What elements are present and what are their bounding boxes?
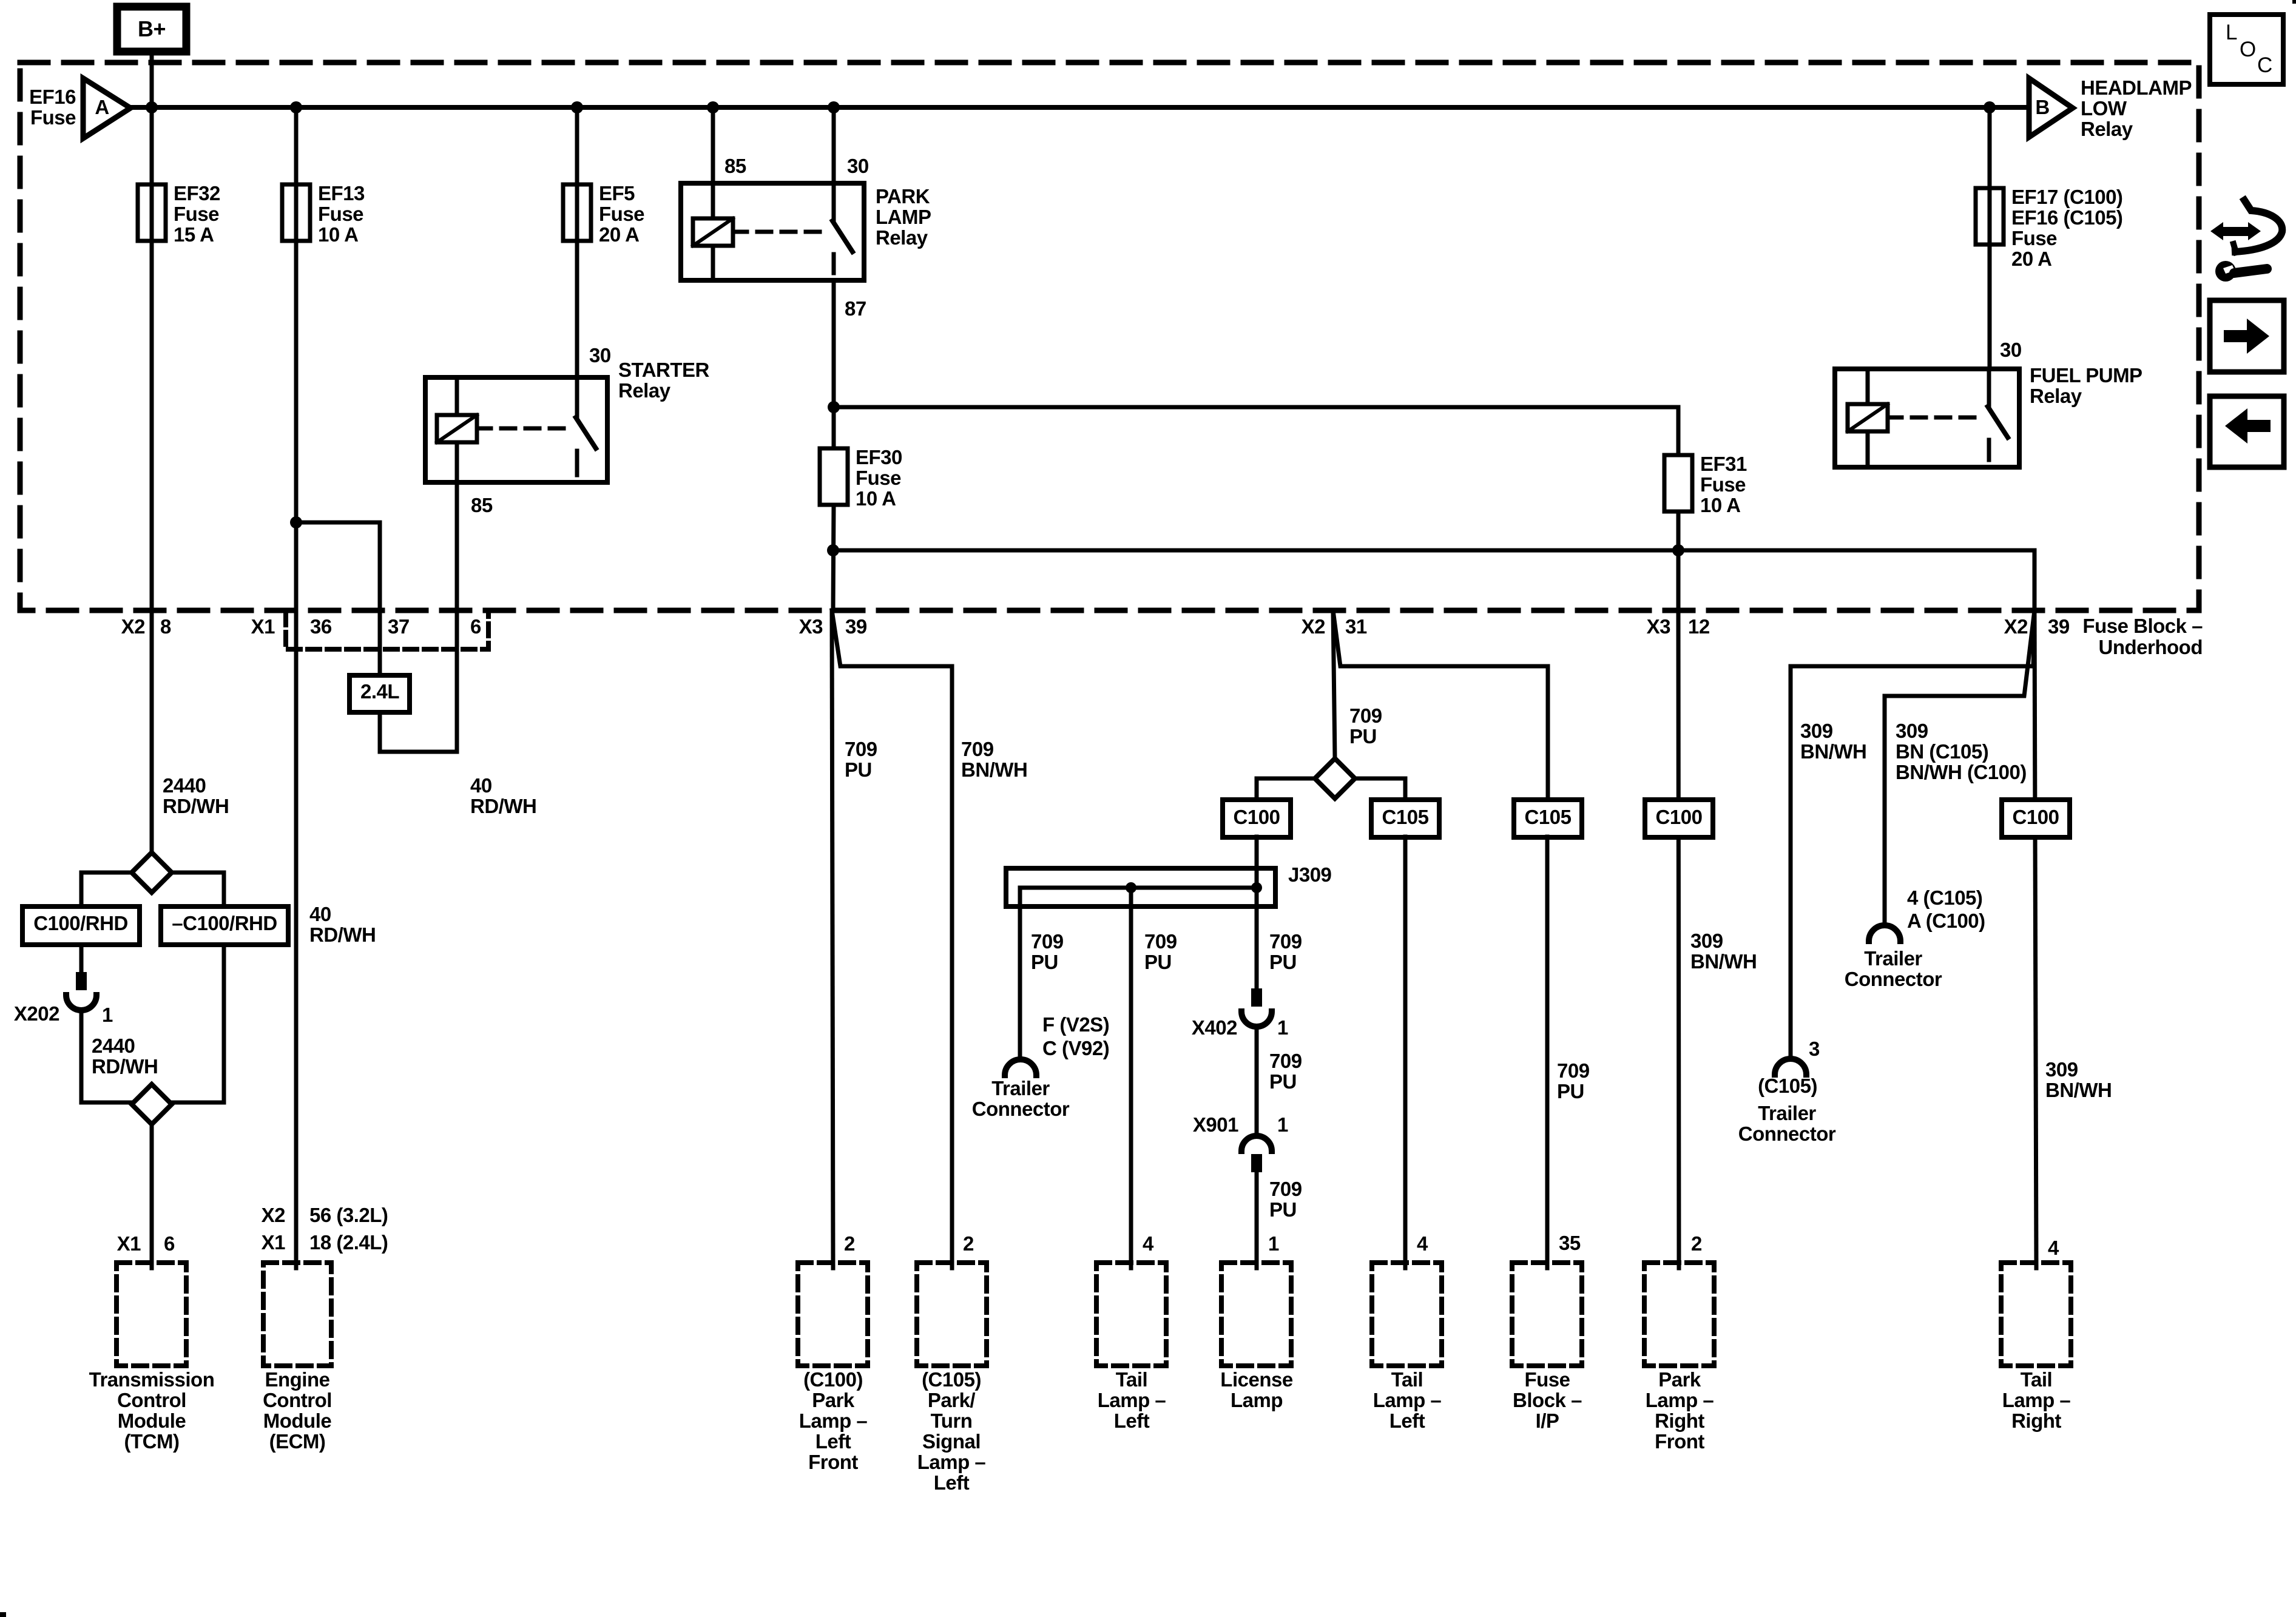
svg-text:1: 1 xyxy=(1277,1016,1288,1039)
trailer connector arc 4/A xyxy=(1869,925,1900,941)
junction node B+ / EF32 xyxy=(146,101,158,113)
svg-text:C105: C105 xyxy=(1525,806,1572,828)
wire park lamp relay pin 30 xyxy=(832,107,836,183)
svg-text:A (C100): A (C100) xyxy=(1907,910,1985,932)
svg-text:Front: Front xyxy=(1655,1430,1704,1453)
connector C105 fuse block IP xyxy=(1514,800,1582,837)
box fuse block IP xyxy=(1512,1263,1582,1366)
svg-text:10 A: 10 A xyxy=(856,487,896,510)
junction node J309 right xyxy=(1251,882,1262,893)
svg-text:309: 309 xyxy=(1800,720,1833,742)
svg-text:Lamp –: Lamp – xyxy=(2002,1389,2071,1411)
svg-text:BN/WH: BN/WH xyxy=(961,758,1027,781)
power feed B+ terminal xyxy=(117,7,186,52)
svg-text:Transmission: Transmission xyxy=(89,1368,215,1391)
svg-text:Relay: Relay xyxy=(618,379,671,402)
svg-text:39: 39 xyxy=(845,615,867,638)
svg-text:Signal: Signal xyxy=(922,1430,981,1453)
svg-text:Connector: Connector xyxy=(1738,1122,1836,1145)
svg-text:6: 6 xyxy=(164,1232,175,1255)
svg-text:309: 309 xyxy=(1896,720,1928,742)
lamp box park lamp right front xyxy=(1644,1263,1714,1366)
svg-text:85: 85 xyxy=(724,155,746,177)
fuse EF13 10 A xyxy=(282,184,310,241)
svg-text:EF16 (C105): EF16 (C105) xyxy=(2011,206,2122,229)
wire C105 to fuse block IP xyxy=(1545,837,1550,1268)
relay PARK LAMP xyxy=(681,183,864,280)
lamp box park lamp left front xyxy=(798,1263,868,1366)
svg-text:PU: PU xyxy=(1349,725,1377,748)
svg-text:PU: PU xyxy=(1269,1198,1297,1221)
trailer connector arc 3 (C105) xyxy=(1775,1059,1806,1075)
svg-text:Block –: Block – xyxy=(1513,1389,1582,1411)
svg-text:(TCM): (TCM) xyxy=(124,1430,180,1453)
svg-text:Connector: Connector xyxy=(972,1098,1070,1120)
svg-text:PU: PU xyxy=(1144,951,1172,973)
svg-text:2: 2 xyxy=(1691,1232,1702,1255)
wire 2.4L option to starter relay 85 via pin 6 xyxy=(380,482,457,752)
J309 internal bus wire xyxy=(1020,886,1257,890)
svg-text:Front: Front xyxy=(808,1451,858,1473)
svg-text:2.4L: 2.4L xyxy=(360,680,399,703)
wire EF32 branch down to TCM splice xyxy=(150,107,154,853)
svg-text:C100: C100 xyxy=(1656,806,1703,828)
X1 connector dashed sub-box xyxy=(286,613,488,649)
lamp box park/turn signal lamp left xyxy=(917,1263,987,1366)
svg-text:Lamp –: Lamp – xyxy=(799,1409,868,1432)
svg-text:I/P: I/P xyxy=(1536,1409,1559,1432)
svg-text:2: 2 xyxy=(844,1232,855,1255)
wire EF13 branch down to ECM xyxy=(294,107,299,1268)
wire X2 39 to trailer connector 4/A xyxy=(1885,610,2034,926)
svg-text:LOW: LOW xyxy=(2081,97,2127,120)
svg-text:C: C xyxy=(2257,53,2272,77)
svg-text:Left: Left xyxy=(1114,1409,1150,1432)
triangle connector A EF16 Fuse xyxy=(83,78,130,138)
svg-text:PU: PU xyxy=(1269,951,1297,973)
page corner mark xyxy=(0,1612,6,1617)
svg-text:35: 35 xyxy=(1559,1232,1581,1254)
svg-text:X3: X3 xyxy=(1647,615,1671,638)
svg-text:B+: B+ xyxy=(138,16,166,41)
svg-text:Fuse: Fuse xyxy=(856,467,901,489)
svg-text:LAMP: LAMP xyxy=(876,206,931,228)
junction node park lamp relay 30 xyxy=(828,101,840,113)
svg-text:EF5: EF5 xyxy=(599,182,635,204)
svg-text:Engine: Engine xyxy=(265,1368,329,1391)
wire X2 31 to fuse block IP via C105 xyxy=(1333,610,1548,800)
svg-text:EF17 (C100): EF17 (C100) xyxy=(2011,186,2122,208)
svg-text:Control: Control xyxy=(117,1389,186,1411)
svg-text:–C100/RHD: –C100/RHD xyxy=(172,912,277,934)
page locator box L O C xyxy=(2210,15,2283,84)
svg-text:Fuse: Fuse xyxy=(318,203,363,225)
svg-text:Fuse: Fuse xyxy=(30,106,76,129)
svg-text:709: 709 xyxy=(961,738,994,760)
svg-text:Module: Module xyxy=(263,1409,332,1432)
svg-text:2440: 2440 xyxy=(163,774,206,797)
svg-text:2440: 2440 xyxy=(92,1035,135,1057)
inline connector X202 xyxy=(76,972,87,990)
svg-text:C100: C100 xyxy=(1234,806,1280,828)
svg-text:Trailer: Trailer xyxy=(1864,947,1922,970)
svg-text:L: L xyxy=(2226,21,2237,44)
svg-text:Right: Right xyxy=(1655,1409,1704,1432)
fuse EF17 (C100) EF16 (C105) 20 A xyxy=(1976,188,2004,245)
svg-text:RD/WH: RD/WH xyxy=(470,795,536,817)
svg-text:4: 4 xyxy=(2048,1237,2059,1259)
svg-text:EF13: EF13 xyxy=(318,182,365,204)
svg-text:309: 309 xyxy=(1690,930,1723,952)
svg-text:O: O xyxy=(2240,38,2256,61)
triangle connector B HEADLAMP LOW Relay xyxy=(2029,78,2073,137)
junction block J309 xyxy=(1006,868,1275,906)
wire C105 to tail lamp left rear xyxy=(1403,837,1408,1268)
svg-text:709: 709 xyxy=(1557,1059,1590,1082)
svg-text:12: 12 xyxy=(1688,615,1710,638)
relay FUEL PUMP xyxy=(1835,369,2019,467)
inline connector X402 xyxy=(1251,988,1262,1007)
svg-text:X3: X3 xyxy=(799,615,823,638)
svg-text:Park: Park xyxy=(1658,1368,1701,1391)
wire 87 feed to EF31 xyxy=(834,407,1678,455)
svg-text:Lamp –: Lamp – xyxy=(1646,1389,1714,1411)
svg-text:RD/WH: RD/WH xyxy=(92,1055,158,1078)
svg-text:Left: Left xyxy=(934,1471,970,1494)
wire J309 to connector X402 xyxy=(1255,888,1259,988)
svg-text:709: 709 xyxy=(1349,704,1382,727)
svg-text:X402: X402 xyxy=(1192,1016,1237,1039)
svg-text:56 (3.2L): 56 (3.2L) xyxy=(309,1204,388,1226)
svg-text:X901: X901 xyxy=(1193,1113,1238,1136)
junction node 87 feed xyxy=(828,401,840,413)
wire splice to -C100/RHD xyxy=(172,873,224,906)
svg-text:PARK: PARK xyxy=(876,185,930,208)
svg-text:Underhood: Underhood xyxy=(2099,636,2203,658)
svg-text:309: 309 xyxy=(2045,1058,2078,1081)
junction node EF13 xyxy=(290,101,302,113)
svg-text:Relay: Relay xyxy=(2081,118,2133,140)
svg-text:RD/WH: RD/WH xyxy=(309,923,376,946)
junction node EF17 fuse xyxy=(1984,101,1996,113)
wire 87 feed to EF30 xyxy=(832,407,836,448)
svg-text:Connector: Connector xyxy=(1845,968,1942,990)
svg-text:36: 36 xyxy=(310,615,332,638)
service information icon double arrow xyxy=(2210,222,2261,240)
connector C100 right front xyxy=(1645,800,1713,837)
wire park lamp relay 87 down xyxy=(832,280,836,407)
svg-text:10 A: 10 A xyxy=(318,223,358,246)
svg-text:BN/WH: BN/WH xyxy=(1690,950,1757,973)
junction node park lamp relay 85 xyxy=(707,101,719,113)
main feed bus wire xyxy=(130,105,2029,110)
svg-text:C (V92): C (V92) xyxy=(1042,1037,1109,1059)
splice diamond upper TCM branch xyxy=(132,852,172,893)
svg-text:EF16: EF16 xyxy=(29,86,76,108)
splice diamond lower TCM branch xyxy=(132,1084,172,1124)
svg-text:4: 4 xyxy=(1143,1232,1154,1255)
junction node EF31 splice xyxy=(1672,544,1684,556)
back arrow box xyxy=(2210,396,2284,467)
svg-text:30: 30 xyxy=(589,344,611,366)
svg-text:31: 31 xyxy=(1345,615,1367,638)
wire diamond to connector C100 xyxy=(1257,778,1315,800)
svg-text:18 (2.4L): 18 (2.4L) xyxy=(309,1231,388,1254)
trailer connector arc F/C xyxy=(1005,1059,1036,1075)
inline connector X901 xyxy=(1241,1136,1272,1151)
module TCM dashed box xyxy=(116,1263,186,1366)
svg-text:2: 2 xyxy=(963,1232,974,1255)
wire EF17 fuse branch xyxy=(1988,107,1992,369)
svg-text:Park/: Park/ xyxy=(928,1389,976,1411)
wire C100/RHD to connector X202 xyxy=(79,945,84,972)
fuse EF5 20 A xyxy=(575,107,579,377)
wire J309 to tail lamp left xyxy=(1129,888,1133,1268)
relay STARTER xyxy=(425,377,607,482)
svg-text:1: 1 xyxy=(1268,1232,1279,1255)
svg-text:709: 709 xyxy=(845,738,877,760)
svg-text:RD/WH: RD/WH xyxy=(163,795,229,817)
svg-text:BN (C105): BN (C105) xyxy=(1896,740,1988,763)
svg-text:Tail: Tail xyxy=(2021,1368,2052,1391)
svg-text:X2: X2 xyxy=(262,1204,286,1226)
svg-text:Trailer: Trailer xyxy=(1758,1102,1816,1124)
wire 709 PU to park lamp left front xyxy=(832,610,833,1268)
wire splice bus to exit X2 39 xyxy=(833,550,2034,610)
svg-text:C100/RHD: C100/RHD xyxy=(33,912,128,934)
svg-text:40: 40 xyxy=(470,774,492,797)
svg-text:EF31: EF31 xyxy=(1700,453,1747,475)
svg-text:1: 1 xyxy=(1277,1113,1288,1136)
svg-text:709: 709 xyxy=(1269,1178,1302,1200)
fuse EF32 15 A xyxy=(138,184,166,241)
wire X2 39 to tail lamp right xyxy=(2034,610,2036,1268)
connector C100 tail right xyxy=(2002,800,2070,837)
svg-text:A: A xyxy=(95,96,109,118)
svg-text:709: 709 xyxy=(1269,930,1302,953)
svg-text:40: 40 xyxy=(309,903,331,925)
wire J309 to trailer connector F/C xyxy=(1018,888,1022,1059)
wire park lamp relay pin 85 xyxy=(711,107,715,183)
svg-text:Relay: Relay xyxy=(2030,385,2082,407)
svg-text:Relay: Relay xyxy=(876,226,928,249)
svg-text:PU: PU xyxy=(1269,1070,1297,1093)
wire splice to C100/RHD xyxy=(81,873,132,906)
svg-text:39: 39 xyxy=(2048,615,2070,638)
svg-text:B: B xyxy=(2035,96,2049,118)
svg-text:C105: C105 xyxy=(1382,806,1429,828)
svg-text:EF30: EF30 xyxy=(856,446,902,468)
svg-text:J309: J309 xyxy=(1288,863,1332,886)
svg-text:1: 1 xyxy=(102,1004,113,1026)
svg-text:X2: X2 xyxy=(121,615,146,638)
svg-text:(C100): (C100) xyxy=(803,1368,863,1391)
svg-text:709: 709 xyxy=(1031,930,1064,953)
svg-text:Fuse: Fuse xyxy=(1700,473,1746,496)
forward arrow box xyxy=(2210,300,2284,372)
fuse block underhood dashed border xyxy=(20,62,2199,610)
lamp box tail lamp right xyxy=(2001,1263,2071,1366)
wire X2 31 to splice diamond xyxy=(1333,610,1335,758)
wire -C100/RHD to lower splice xyxy=(172,945,224,1102)
svg-text:30: 30 xyxy=(2000,339,2022,361)
wire X202 to lower splice xyxy=(81,1010,132,1102)
lamp box tail lamp left xyxy=(1096,1263,1166,1366)
wire X2 39 to trailer connector 3 xyxy=(1791,610,2034,1059)
svg-text:(ECM): (ECM) xyxy=(269,1430,326,1453)
splice diamond J309 feed xyxy=(1315,758,1355,798)
svg-text:STARTER: STARTER xyxy=(618,359,710,381)
svg-text:X1: X1 xyxy=(262,1231,286,1254)
svg-text:37: 37 xyxy=(388,615,410,638)
svg-text:(C105): (C105) xyxy=(1758,1075,1817,1097)
wire X901 to license lamp xyxy=(1255,1172,1259,1268)
svg-text:Module: Module xyxy=(118,1409,186,1432)
fuse EF30 10 A xyxy=(820,448,848,505)
svg-text:Park: Park xyxy=(812,1389,855,1411)
svg-text:X1: X1 xyxy=(251,615,275,638)
junction node J309 centre xyxy=(1126,882,1136,893)
svg-text:X2: X2 xyxy=(2004,615,2028,638)
engine option box 2.4L xyxy=(349,675,410,712)
svg-text:BN/WH: BN/WH xyxy=(1800,740,1866,763)
svg-text:8: 8 xyxy=(160,615,171,638)
svg-text:PU: PU xyxy=(845,758,872,781)
svg-text:20 A: 20 A xyxy=(599,223,639,246)
svg-text:Tail: Tail xyxy=(1116,1368,1147,1391)
svg-text:87: 87 xyxy=(845,297,866,320)
svg-text:Tail: Tail xyxy=(1391,1368,1423,1391)
svg-text:Turn: Turn xyxy=(931,1409,973,1432)
svg-text:BN/WH: BN/WH xyxy=(2045,1079,2112,1101)
svg-text:BN/WH (C100): BN/WH (C100) xyxy=(1896,761,2027,783)
svg-text:Control: Control xyxy=(263,1389,332,1411)
svg-text:4: 4 xyxy=(1417,1232,1428,1255)
svg-text:X2: X2 xyxy=(1302,615,1326,638)
page corner top right mark xyxy=(2292,0,2296,4)
svg-text:3: 3 xyxy=(1809,1038,1820,1060)
svg-text:Fuse: Fuse xyxy=(1524,1368,1570,1391)
service information icon curved arrow xyxy=(2235,200,2282,252)
svg-text:F (V2S): F (V2S) xyxy=(1042,1013,1109,1036)
svg-text:Right: Right xyxy=(2011,1409,2061,1432)
svg-text:License: License xyxy=(1220,1368,1293,1391)
svg-text:Left: Left xyxy=(815,1430,851,1453)
wire EF31 to exit X3 12 xyxy=(1676,511,1681,610)
svg-text:Fuse: Fuse xyxy=(2011,227,2057,249)
svg-text:Lamp: Lamp xyxy=(1231,1389,1283,1411)
svg-text:Lamp –: Lamp – xyxy=(917,1451,986,1473)
svg-text:X1: X1 xyxy=(117,1232,141,1255)
svg-text:PU: PU xyxy=(1557,1080,1584,1102)
svg-text:C100: C100 xyxy=(2013,806,2059,828)
wire EF13 to 2.4L option box via pin 37 xyxy=(296,522,380,675)
svg-text:EF32: EF32 xyxy=(174,182,220,204)
lamp box tail lamp left rear xyxy=(1372,1263,1442,1366)
svg-text:15 A: 15 A xyxy=(174,223,214,246)
svg-text:6: 6 xyxy=(470,615,481,638)
connector C100 left xyxy=(1223,800,1291,837)
svg-text:Lamp –: Lamp – xyxy=(1373,1389,1442,1411)
svg-text:Left: Left xyxy=(1389,1409,1425,1432)
wire 709 BN/WH to park/turn signal lamp xyxy=(832,610,952,1268)
svg-text:Lamp –: Lamp – xyxy=(1098,1389,1166,1411)
wire diamond to connector C105 xyxy=(1355,778,1405,800)
option box C100/RHD xyxy=(22,906,140,945)
lamp box license lamp xyxy=(1221,1263,1291,1366)
svg-text:PU: PU xyxy=(1031,951,1058,973)
svg-text:FUEL PUMP: FUEL PUMP xyxy=(2030,364,2142,387)
wire X402 to X901 xyxy=(1255,1027,1259,1135)
wire splice to TCM xyxy=(150,1124,154,1268)
svg-text:(C105): (C105) xyxy=(922,1368,981,1391)
option box -C100/RHD xyxy=(161,906,288,945)
svg-text:10 A: 10 A xyxy=(1700,494,1740,516)
service information icon wrench xyxy=(2215,261,2236,282)
svg-text:X202: X202 xyxy=(14,1002,59,1025)
svg-text:30: 30 xyxy=(847,155,869,177)
svg-text:4 (C105): 4 (C105) xyxy=(1907,886,1982,909)
wire C100 to junction block J309 xyxy=(1255,837,1259,888)
junction node EF5 xyxy=(571,101,583,113)
connector C105 left xyxy=(1371,800,1439,837)
junction node EF13 to 2.4L branch xyxy=(290,516,302,528)
svg-text:709: 709 xyxy=(1144,930,1177,953)
svg-text:Fuse Block –: Fuse Block – xyxy=(2082,615,2203,637)
junction node EF30 splice xyxy=(827,544,839,556)
svg-text:HEADLAMP: HEADLAMP xyxy=(2081,76,2192,99)
svg-text:709: 709 xyxy=(1269,1050,1302,1072)
svg-text:20 A: 20 A xyxy=(2011,248,2051,270)
fuse EF31 10 A xyxy=(1664,455,1692,511)
svg-text:Fuse: Fuse xyxy=(174,203,219,225)
svg-text:85: 85 xyxy=(471,494,493,516)
svg-text:Fuse: Fuse xyxy=(599,203,644,225)
wire B+ to bus xyxy=(150,52,154,107)
wire X3 12 to park lamp right front xyxy=(1678,610,1679,1268)
wire EF30 to exit X3 39 xyxy=(833,505,834,610)
svg-text:Trailer: Trailer xyxy=(991,1077,1050,1099)
module ECM dashed box xyxy=(263,1263,331,1366)
